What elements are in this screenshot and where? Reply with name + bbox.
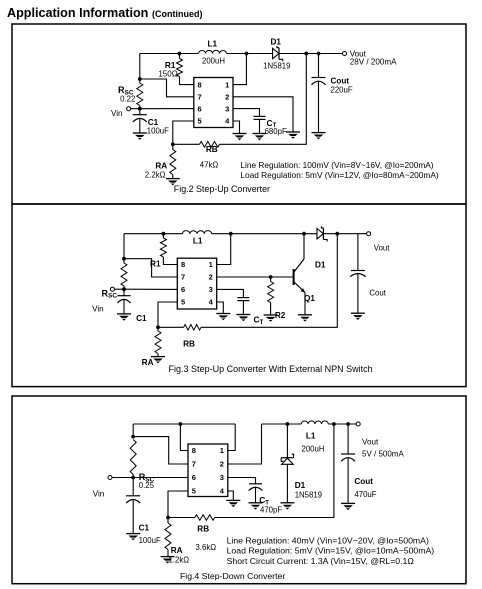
resistor RA 1.2k (fig4)	[165, 518, 189, 565]
wire pin 4 to ground (fig3)	[217, 302, 224, 314]
ground C1 (fig2)	[133, 133, 147, 140]
wire top rail left (fig2)	[140, 53, 199, 55]
svg-text:Cout: Cout	[331, 76, 350, 85]
svg-text:7: 7	[192, 460, 196, 469]
node Cout junction (fig4)	[346, 422, 350, 426]
svg-text:3: 3	[209, 285, 213, 294]
wire RA node to RB (fig2)	[173, 143, 200, 145]
terminal Vin (fig4)	[93, 476, 134, 499]
wire RSC top to pin 7 (fig4)	[133, 437, 188, 464]
svg-text:5: 5	[198, 117, 202, 126]
ground RA (fig2)	[166, 179, 180, 186]
svg-text:5: 5	[181, 298, 185, 307]
svg-text:8: 8	[198, 80, 202, 89]
svg-text:Fig.2 Step-Up Converter: Fig.2 Step-Up Converter	[174, 184, 270, 194]
node RA/RB junction (fig4)	[166, 516, 170, 520]
capacitor CT (fig3)	[237, 298, 263, 326]
wire Vin to pin 6 (fig4)	[133, 477, 188, 479]
resistor RSC 0.22 (fig2)	[118, 79, 143, 109]
wire pin 5 to RA node (fig2)	[173, 121, 194, 144]
svg-text:5V / 500mA: 5V / 500mA	[362, 449, 404, 458]
resistor RB (fig3)	[183, 325, 201, 349]
wire rail down to RSC (fig3)	[123, 234, 125, 259]
svg-text:6: 6	[198, 104, 202, 113]
node D1/feedback junction (fig2)	[304, 52, 308, 56]
svg-text:5: 5	[192, 487, 196, 496]
inductor L1 200uH (fig4)	[301, 421, 328, 454]
svg-text:L1: L1	[306, 432, 316, 441]
wire Vin to pin 6 (fig2)	[140, 108, 194, 110]
svg-text:0.22: 0.22	[120, 94, 135, 103]
svg-text:470pF: 470pF	[260, 506, 282, 515]
page title	[7, 6, 202, 20]
ground Cout (fig2)	[312, 133, 326, 140]
svg-text:47kΩ: 47kΩ	[200, 160, 219, 169]
wire pin 2 to output rail (fig4)	[228, 424, 262, 464]
capacitor C1 100uF (fig4)	[126, 478, 161, 546]
wire top rail left (fig4)	[133, 423, 235, 425]
svg-text:1: 1	[225, 80, 229, 89]
ground C1 (fig4)	[126, 534, 140, 541]
resistor R1 (fig3)	[150, 234, 177, 269]
fig4 regulation note	[227, 535, 435, 565]
svg-text:1: 1	[209, 260, 213, 269]
svg-text:7: 7	[198, 93, 202, 102]
wire RB to feedback riser (fig2)	[220, 54, 307, 145]
wire pin 5 to RA node (fig3)	[158, 302, 177, 327]
svg-text:R1: R1	[150, 260, 161, 269]
IC U1 (fig3)	[177, 258, 216, 309]
svg-text:2.2kΩ: 2.2kΩ	[145, 171, 166, 180]
diode D1 1N5819 (fig4)	[281, 424, 322, 503]
svg-text:28V / 200mA: 28V / 200mA	[350, 58, 397, 67]
wire output rail (fig4)	[262, 423, 302, 425]
ground R2 (fig3)	[264, 315, 278, 322]
svg-text:7: 7	[181, 273, 185, 282]
figure 2 border frame	[12, 24, 466, 204]
wire pin 2 to base (fig3)	[217, 276, 294, 278]
svg-text:200uH: 200uH	[202, 56, 225, 65]
resistor RSC 0.25 (fig4)	[130, 440, 154, 491]
resistor RB 3.6k (fig4)	[195, 515, 216, 552]
svg-text:RA: RA	[142, 358, 154, 367]
wire pin 3 to CT (fig3)	[217, 289, 244, 297]
resistor R2 (fig3)	[268, 277, 286, 320]
svg-text:100uF: 100uF	[139, 536, 161, 545]
ground Q1 emitter (fig3)	[298, 315, 312, 322]
figure 3 border frame	[12, 204, 466, 387]
wire D1 to Vout (fig2)	[279, 53, 343, 55]
resistor RSC (fig3)	[102, 259, 128, 300]
capacitor C1 100uF (fig2)	[133, 109, 169, 136]
wire D1 to Vout (fig3)	[323, 233, 366, 235]
capacitor C1 (fig3)	[117, 289, 147, 323]
svg-text:Vin: Vin	[93, 490, 105, 499]
svg-text:RA: RA	[171, 546, 183, 555]
ground pin 4 (fig2)	[233, 134, 247, 141]
svg-text:Cout: Cout	[369, 288, 386, 297]
wire pin 1 riser (fig2)	[233, 54, 246, 85]
svg-text:2: 2	[220, 460, 224, 469]
wire pin 3 to CT (fig2)	[233, 109, 260, 117]
svg-text:C1: C1	[139, 524, 150, 533]
svg-text:1N5819: 1N5819	[295, 491, 322, 500]
svg-text:6: 6	[181, 285, 185, 294]
wire pin 2 to ground (fig2)	[233, 97, 293, 132]
diode D1 1N5819 (fig2)	[263, 38, 290, 71]
svg-text:8: 8	[192, 446, 196, 455]
svg-text:8: 8	[181, 260, 185, 269]
svg-text:Fig.3 Step-Up Converter With E: Fig.3 Step-Up Converter With External NP…	[169, 364, 373, 374]
svg-text:3.6kΩ: 3.6kΩ	[196, 543, 217, 552]
node R1 top junction (fig2)	[178, 52, 182, 56]
node RA/RB junction (fig2)	[171, 142, 175, 146]
svg-text:RB: RB	[206, 145, 218, 154]
svg-text:(Continued): (Continued)	[152, 9, 202, 19]
svg-text:Line Regulation: 100mV (Vin=8V: Line Regulation: 100mV (Vin=8V~16V, @Io=…	[240, 160, 433, 170]
svg-text:6: 6	[192, 473, 196, 482]
terminal Vin (fig2)	[111, 107, 140, 118]
inductor L1 (fig2)	[199, 40, 227, 66]
ground C1 (fig3)	[117, 314, 131, 321]
wire RA node to RB (fig4)	[168, 517, 195, 519]
wire RSC top to pin 7 (fig3)	[124, 259, 177, 277]
svg-text:L1: L1	[208, 40, 218, 49]
svg-text:RB: RB	[197, 524, 209, 533]
wire top rail (fig3)	[124, 233, 183, 235]
node RSC top (fig3)	[122, 257, 126, 261]
node pin1 riser top (fig3)	[229, 232, 233, 236]
node RSC top (fig4)	[131, 435, 135, 439]
node Vin junction (fig2)	[138, 107, 142, 111]
svg-text:Vin: Vin	[111, 109, 123, 118]
svg-text:3: 3	[225, 104, 229, 113]
node pin8 riser top (fig4)	[179, 422, 183, 426]
node R2 top (fig3)	[269, 275, 273, 279]
svg-text:1N5819: 1N5819	[263, 62, 290, 71]
capacitor Cout 220uF (fig2)	[312, 54, 353, 133]
svg-text:Fig.4 Step-Down Converter: Fig.4 Step-Down Converter	[180, 571, 285, 581]
node collector junction (fig3)	[302, 232, 306, 236]
ground RA (fig4)	[161, 557, 175, 564]
svg-text:470uF: 470uF	[354, 490, 376, 499]
wire RSC top to pin 7 (fig2)	[140, 79, 194, 97]
fig4 caption	[180, 571, 285, 581]
svg-text:L1: L1	[193, 237, 203, 246]
node Cout junction (fig2)	[317, 52, 321, 56]
svg-text:D1: D1	[315, 261, 326, 270]
resistor R1 150ohm (fig2)	[158, 54, 193, 85]
node D1 top (fig4)	[286, 422, 290, 426]
wire L1 to Vout (fig4)	[328, 423, 356, 425]
node Vin junction (fig3)	[122, 287, 126, 291]
node Vin junction (fig4)	[131, 476, 135, 480]
svg-text:RA: RA	[155, 161, 167, 170]
figure 4 border frame	[12, 396, 466, 584]
node feedback top (fig4)	[332, 422, 336, 426]
node feedback junction (fig3)	[335, 232, 339, 236]
wire pin 1 riser (fig3)	[217, 234, 231, 265]
node R1 top (fig3)	[162, 232, 166, 236]
capacitor CT 680pF (fig2)	[254, 116, 287, 135]
svg-text:RB: RB	[183, 340, 195, 349]
svg-text:220uF: 220uF	[331, 86, 353, 95]
fig2 caption	[174, 184, 270, 194]
wire pin 4 to ground (fig4)	[228, 491, 234, 500]
resistor RA 2.2k (fig2)	[145, 144, 176, 179]
ground D1 (fig4)	[280, 503, 294, 510]
capacitor CT 470pF (fig4)	[249, 484, 283, 515]
svg-text:200uH: 200uH	[302, 445, 325, 454]
terminal Vin (fig3)	[92, 287, 124, 313]
IC U1 (fig2)	[194, 78, 233, 128]
wire pin 5 to RA node (fig4)	[168, 491, 188, 518]
ground CT (fig2)	[253, 134, 267, 141]
svg-text:Line Regulation: 40mV (Vin=10V: Line Regulation: 40mV (Vin=10V~20V, @Io=…	[227, 535, 429, 545]
resistor RB 47k (fig2)	[200, 142, 220, 170]
wire pin 4 to ground (fig2)	[233, 121, 240, 134]
terminal Vout (fig3)	[367, 232, 391, 253]
capacitor Cout (fig3)	[350, 234, 387, 314]
wire RA node to RB (fig3)	[158, 326, 184, 328]
svg-text:Application Information: Application Information	[7, 6, 148, 20]
svg-text:150Ω: 150Ω	[158, 70, 177, 79]
wire pin 3 to CT (fig4)	[228, 478, 256, 485]
resistor RA (fig3)	[142, 327, 161, 367]
ground pin 2 (fig2)	[286, 132, 300, 139]
svg-text:D1: D1	[295, 481, 306, 490]
svg-text:Cout: Cout	[354, 477, 373, 486]
node RA/RB junction (fig3)	[156, 325, 160, 329]
wire pin 8 riser (fig4)	[180, 424, 188, 451]
svg-text:680pF: 680pF	[265, 127, 287, 136]
svg-text:Load Regulation: 5mV (Vin=12V,: Load Regulation: 5mV (Vin=12V, @Io=80mA~…	[240, 170, 438, 180]
node RSC top (fig2)	[138, 77, 142, 81]
wire RB to feedback riser (fig4)	[215, 424, 334, 518]
ground CT (fig4)	[249, 503, 263, 510]
fig2 regulation note	[240, 160, 438, 180]
ground Cout (fig4)	[341, 503, 355, 510]
wire pin 1 riser (fig4)	[228, 424, 235, 451]
svg-text:C1: C1	[136, 314, 147, 323]
diode D1 (fig3)	[315, 226, 327, 269]
svg-text:0.25: 0.25	[139, 481, 155, 490]
svg-text:100uF: 100uF	[147, 126, 169, 135]
wire rail down to RSC (fig2)	[139, 54, 141, 80]
svg-text:Load Regulation: 5mV (Vin=15V,: Load Regulation: 5mV (Vin=15V, @Io=10mA~…	[227, 546, 435, 556]
svg-text:Vout: Vout	[362, 438, 379, 447]
wire L1 to D1 (fig2)	[227, 53, 273, 55]
svg-text:Vout: Vout	[374, 244, 390, 253]
fig3 caption	[169, 364, 373, 374]
svg-text:Q1: Q1	[304, 294, 315, 303]
ground CT (fig3)	[236, 315, 250, 322]
transistor Q1 NPN (fig3)	[294, 234, 316, 315]
ground RA (fig3)	[151, 357, 165, 364]
wire L1 to D1 (fig3)	[212, 233, 317, 235]
terminal Vout (fig4)	[356, 422, 404, 458]
svg-text:Short Circuit Current: 1.3A (V: Short Circuit Current: 1.3A (Vin=15V, @R…	[227, 556, 415, 566]
capacitor Cout 470uF (fig4)	[341, 424, 377, 503]
inductor L1 (fig3)	[183, 231, 212, 246]
terminal Vout (fig2)	[343, 50, 398, 67]
ground Cout (fig3)	[351, 313, 365, 320]
svg-text:Vin: Vin	[92, 305, 104, 314]
IC U1 (fig4)	[188, 444, 228, 497]
wire Vin to pin 6 (fig3)	[124, 288, 177, 290]
wire RB to feedback riser (fig3)	[201, 234, 337, 328]
svg-text:2: 2	[209, 273, 213, 282]
ground pin 4 (fig4)	[226, 500, 240, 507]
svg-text:2: 2	[225, 93, 229, 102]
svg-text:3: 3	[220, 473, 224, 482]
node L1/pin1 junction (fig2)	[245, 52, 249, 56]
svg-text:D1: D1	[270, 38, 281, 47]
ground pin 4 (fig3)	[216, 314, 230, 321]
svg-text:1: 1	[220, 446, 224, 455]
wire rail down to RSC (fig4)	[132, 424, 134, 437]
